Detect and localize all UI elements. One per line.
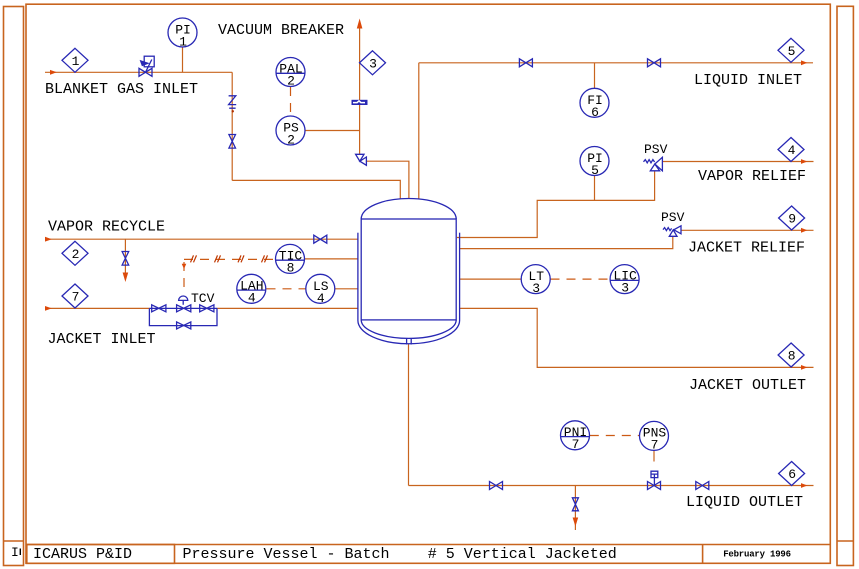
svg-text:4: 4: [788, 143, 796, 158]
title block: [26, 545, 830, 564]
svg-text:7: 7: [572, 437, 580, 452]
border left strip: [4, 7, 24, 566]
relief valve PSV vapor: [644, 157, 663, 171]
signal PNI7 to PNS7 dashed: [590, 435, 640, 437]
instrument PI1: [168, 18, 197, 50]
valve jacket inlet block 2: [200, 305, 214, 312]
node diamond 3: [360, 51, 386, 75]
arrow vapor recycle drop down: [123, 273, 129, 283]
svg-text:5: 5: [788, 44, 796, 59]
instrument PAL2: [276, 58, 305, 89]
svg-text:JACKET INLET: JACKET INLET: [48, 331, 156, 348]
valve liquid outlet control: [648, 482, 661, 490]
jacket left wall: [357, 233, 359, 321]
regulator PCV on blanket gas: [139, 56, 154, 76]
wire PI5 stem: [594, 176, 596, 201]
signal TIC8 to TCV horizontal dashed: [184, 258, 276, 260]
wire blanket gas inlet horizontal: [45, 71, 232, 73]
border right strip: [837, 6, 853, 565]
instrument LS4: [306, 274, 335, 306]
node diamond 2: [62, 241, 88, 265]
instrument PS2: [276, 116, 305, 148]
vessel V1 bottom head: [361, 320, 456, 338]
valve TCV body: [177, 305, 191, 312]
arrow jacket inlet start: [45, 306, 52, 311]
wire vacuum breaker vertical: [359, 25, 361, 155]
svg-text:7: 7: [72, 290, 80, 305]
svg-text:LIQUID OUTLET: LIQUID OUTLET: [686, 494, 803, 511]
arrow jacket outlet end: [801, 365, 807, 370]
instrument LAH4: [237, 274, 266, 305]
wire vapor recycle drop: [124, 239, 126, 274]
instrument TIC8: [276, 244, 305, 275]
instrument LIC3: [610, 265, 639, 296]
wire vapor relief horizontal: [663, 161, 814, 163]
wire liquid inlet riser: [418, 63, 420, 199]
arrow vapor recycle start: [45, 237, 52, 242]
wire jacket inlet horizontal right: [217, 307, 358, 309]
node diamond 6: [779, 462, 805, 486]
svg-text:2: 2: [72, 247, 80, 262]
wire PSV4 riser: [654, 171, 656, 201]
signal LAH4 to LS4 dashed: [267, 288, 306, 290]
arrow jacket relief end: [801, 228, 807, 233]
wire liquid outlet horizontal: [409, 485, 814, 487]
svg-text:ICARUS P&ID: ICARUS P&ID: [33, 546, 132, 563]
Z self-closing valve on riser: [229, 96, 237, 113]
svg-text:VACUUM BREAKER: VACUUM BREAKER: [218, 22, 344, 39]
wire blanket gas to vessel top: [232, 180, 400, 198]
svg-text:TCV: TCV: [191, 291, 215, 306]
wire bottom outlet stem: [408, 344, 410, 486]
wire drain drop: [574, 486, 576, 531]
signal PAL2 to PS2 dashed: [290, 87, 292, 116]
svg-text:7: 7: [651, 437, 659, 452]
valve liquid outlet block 2: [696, 482, 709, 490]
svg-text:2: 2: [287, 133, 295, 148]
signal TCV drop dashed: [183, 262, 185, 293]
svg-text:4: 4: [317, 291, 325, 306]
signal TIC8 to TCV slashes: [191, 255, 268, 262]
svg-text:PSV: PSV: [661, 210, 685, 225]
svg-text:6: 6: [788, 467, 796, 482]
svg-text:4: 4: [248, 290, 256, 305]
svg-text:LIQUID INLET: LIQUID INLET: [694, 72, 802, 89]
vessel bottom nozzle: [406, 339, 408, 345]
instrument PI5: [580, 147, 609, 179]
svg-text:February 1996: February 1996: [723, 550, 791, 560]
svg-text:I: I: [11, 545, 19, 560]
wire PI1 stem: [182, 47, 184, 73]
arrow drain down: [573, 518, 579, 527]
pipe TCV manifold blue run: [149, 307, 217, 309]
valve vapor recycle drop vertical: [122, 252, 129, 266]
svg-text:8: 8: [287, 260, 295, 275]
wire jacket relief horizontal: [682, 229, 814, 231]
jacket right wall: [459, 233, 461, 321]
node diamond 8: [778, 343, 804, 367]
valve on liquid inlet left: [519, 59, 532, 67]
svg-text:PSV: PSV: [644, 142, 668, 157]
svg-text:BLANKET GAS INLET: BLANKET GAS INLET: [45, 81, 198, 98]
svg-text:8: 8: [788, 349, 796, 364]
arrow blanket gas inlet start: [50, 70, 57, 75]
instrument PNI7: [561, 421, 590, 452]
wire jacket outlet run: [460, 308, 814, 367]
svg-text:VAPOR RELIEF: VAPOR RELIEF: [698, 168, 806, 185]
wire blanket gas riser down: [231, 72, 233, 180]
arrow vapor relief end: [801, 159, 807, 164]
svg-text:JACKET OUTLET: JACKET OUTLET: [689, 377, 806, 394]
wire vapor header: [457, 200, 655, 237]
wire PNS7 stem: [653, 451, 655, 462]
node diamond 5: [778, 38, 804, 62]
node diamond 1: [62, 48, 88, 72]
wire vacuum breaker elbow to vessel: [366, 161, 409, 199]
svg-text:Pressure Vessel - Batch: Pressure Vessel - Batch: [183, 546, 390, 563]
valve vacuum breaker angle: [356, 154, 367, 165]
arrow liquid outlet end: [801, 483, 807, 488]
instrument LT3: [521, 265, 550, 297]
wire LS4 to vessel: [335, 288, 358, 290]
svg-text:VAPOR RECYCLE: VAPOR RECYCLE: [48, 219, 165, 236]
signal LT3 to LIC3 dashed: [551, 278, 611, 280]
wire LT3 to vessel: [460, 278, 522, 280]
node diamond 9: [779, 206, 805, 230]
valve TCV dome actuator: [179, 296, 188, 305]
svg-text:1: 1: [72, 54, 80, 69]
instrument PNS7: [640, 421, 669, 452]
valve liquid outlet block 1: [490, 482, 503, 490]
wire TIC8 to vessel: [305, 258, 358, 260]
jacket bottom arc: [358, 321, 460, 344]
wire FI6 stem: [594, 63, 596, 89]
valve jacket inlet block 1: [152, 305, 166, 312]
wire PS2 to vacuum line: [306, 130, 360, 132]
vessel V1 shell: [361, 219, 456, 320]
svg-text:JACKET RELIEF: JACKET RELIEF: [688, 240, 805, 257]
svg-text:3: 3: [369, 56, 377, 71]
valve drain vertical: [572, 498, 578, 511]
svg-text:6: 6: [591, 105, 599, 120]
arrow signal TCV small: [182, 264, 187, 269]
svg-text:9: 9: [788, 212, 796, 227]
arrow vacuum breaker up: [357, 19, 363, 29]
svg-text:# 5 Vertical Jacketed: # 5 Vertical Jacketed: [428, 546, 617, 563]
svg-text:3: 3: [621, 281, 629, 296]
actuator liquid outlet square: [651, 471, 658, 485]
valve on liquid inlet right: [648, 59, 661, 67]
wire vapor recycle horizontal: [45, 238, 358, 240]
node diamond 7: [62, 284, 88, 308]
vessel V1 top head: [361, 199, 456, 219]
valve bypass: [177, 322, 191, 329]
pipe TCV bypass loop blue: [149, 308, 217, 325]
relief valve PSV jacket: [663, 226, 681, 237]
svg-text:5: 5: [591, 163, 599, 178]
valve blanket gas riser vertical: [229, 135, 236, 149]
wire liquid inlet horizontal: [419, 62, 813, 64]
instrument FI6: [580, 88, 609, 120]
svg-text:1: 1: [179, 35, 187, 50]
svg-text:2: 2: [287, 74, 295, 89]
orifice plate on vacuum breaker: [352, 100, 368, 105]
arrow liquid inlet end: [801, 60, 807, 65]
node diamond 4: [778, 138, 804, 162]
wire jacket relief run: [460, 237, 673, 249]
valve on vapor recycle: [314, 235, 327, 243]
wire jacket inlet horizontal left: [45, 307, 149, 309]
svg-text:3: 3: [532, 281, 540, 296]
